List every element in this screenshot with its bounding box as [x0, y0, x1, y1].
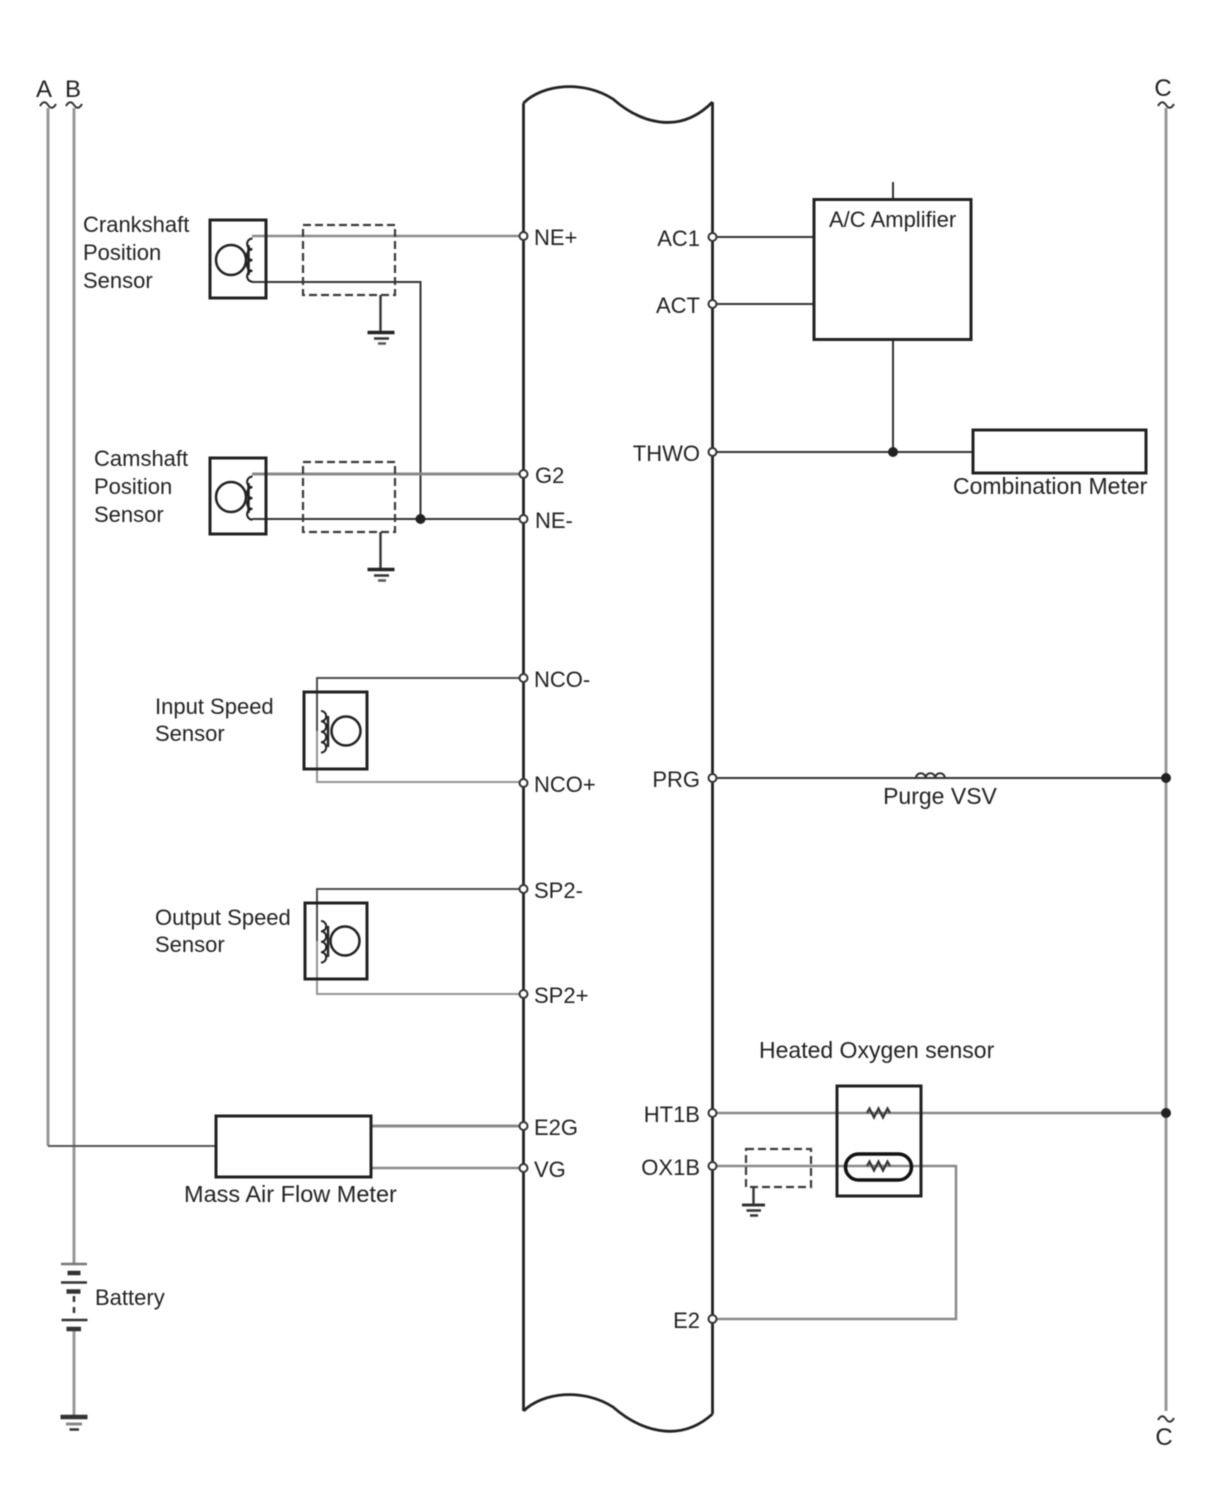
- svg-text:THWO: THWO: [633, 441, 700, 466]
- svg-text:A: A: [36, 76, 52, 103]
- svg-text:OX1B: OX1B: [641, 1155, 700, 1180]
- svg-text:B: B: [65, 76, 81, 103]
- svg-text:Sensor: Sensor: [83, 268, 153, 293]
- svg-text:Sensor: Sensor: [94, 502, 164, 527]
- svg-text:VG: VG: [534, 1157, 566, 1182]
- svg-text:AC1: AC1: [657, 226, 700, 251]
- svg-text:A/C Amplifier: A/C Amplifier: [829, 207, 956, 232]
- svg-text:SP2-: SP2-: [534, 878, 583, 903]
- svg-text:C: C: [1154, 75, 1171, 102]
- svg-text:Camshaft: Camshaft: [94, 446, 188, 471]
- svg-text:Battery: Battery: [95, 1285, 165, 1310]
- svg-text:Position: Position: [83, 240, 161, 265]
- svg-text:NE+: NE+: [534, 225, 577, 250]
- svg-text:E2: E2: [673, 1308, 700, 1333]
- svg-text:Mass Air Flow Meter: Mass Air Flow Meter: [184, 1181, 397, 1207]
- svg-text:Output Speed: Output Speed: [155, 905, 291, 930]
- svg-text:C: C: [1155, 1424, 1172, 1451]
- svg-text:SP2+: SP2+: [534, 983, 588, 1008]
- svg-text:NE-: NE-: [535, 508, 573, 533]
- svg-text:Combination Meter: Combination Meter: [953, 473, 1148, 499]
- svg-text:NCO+: NCO+: [534, 772, 596, 797]
- svg-text:ACT: ACT: [656, 293, 700, 318]
- svg-text:HT1B: HT1B: [644, 1102, 700, 1127]
- svg-text:NCO-: NCO-: [534, 667, 590, 692]
- svg-text:Purge VSV: Purge VSV: [883, 783, 997, 809]
- svg-text:PRG: PRG: [652, 767, 700, 792]
- svg-text:Sensor: Sensor: [155, 932, 225, 957]
- svg-text:Position: Position: [94, 474, 172, 499]
- svg-text:Sensor: Sensor: [155, 721, 225, 746]
- svg-text:G2: G2: [535, 463, 564, 488]
- svg-text:Crankshaft: Crankshaft: [83, 212, 189, 237]
- svg-text:Heated Oxygen sensor: Heated Oxygen sensor: [759, 1037, 995, 1063]
- svg-text:Input Speed: Input Speed: [155, 694, 274, 719]
- svg-text:E2G: E2G: [534, 1115, 578, 1140]
